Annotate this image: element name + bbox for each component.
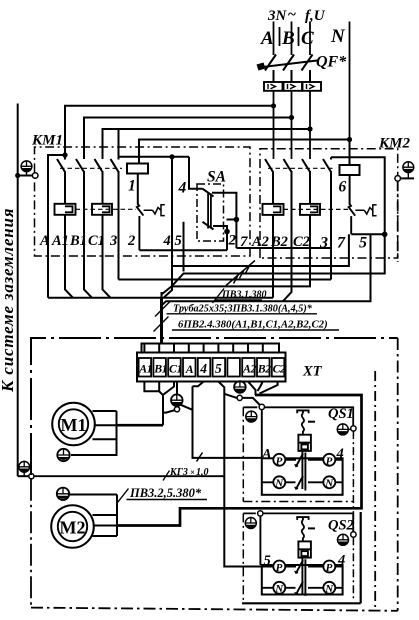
contactor KM2 enclosure box xyxy=(260,149,398,258)
wire below XT C1 xyxy=(164,382,175,395)
breaker QF overcurrent release box pole C xyxy=(303,82,322,91)
node grounding system line xyxy=(17,104,19,477)
wire A tap branch xyxy=(48,155,65,298)
wire ground KM2 enclosure xyxy=(401,177,415,179)
socket QS2 outer thick frame xyxy=(242,512,361,603)
wire phase A below breaker xyxy=(273,91,275,159)
terminal block XT cell labels xyxy=(138,361,286,376)
wire XT drop 4 xyxy=(203,344,205,353)
thermal heater KM2 phase A2 xyxy=(263,204,284,215)
wire KM1 thermal linkage dashed xyxy=(76,208,137,210)
svg-text:6: 6 xyxy=(339,179,347,196)
wire KM2 A2 below heater xyxy=(272,215,274,298)
wire net 5 upper link xyxy=(172,234,385,286)
wire 5 feeder down xyxy=(218,382,273,567)
node terminal circle PE right xyxy=(237,395,242,400)
wire diag to PE circle under XT xyxy=(224,394,237,398)
wire SA stub to junction xyxy=(227,219,237,221)
node junction phase A xyxy=(271,103,276,108)
wire PE2 stub xyxy=(239,381,241,383)
terminal block XT outer xyxy=(137,353,286,382)
svg-text:4: 4 xyxy=(163,233,171,249)
svg-text:М1: М1 xyxy=(61,415,87,435)
wire net 2 to KM1 thermal xyxy=(139,249,227,251)
wire phase C horizontal to KM1 xyxy=(103,129,311,159)
breaker QF linkage bar xyxy=(259,61,318,68)
fuse QS1 xyxy=(298,435,311,451)
wire below XT A1 xyxy=(144,382,159,392)
node junction phase C xyxy=(307,126,312,131)
socket QS2 blade arrows xyxy=(295,571,298,595)
breaker QF latch square xyxy=(257,63,266,71)
svg-text:SA: SA xyxy=(207,169,226,186)
svg-text:XT: XT xyxy=(302,364,323,380)
breaker QF overcurrent release box pole B xyxy=(284,82,303,91)
svg-text:C: C xyxy=(301,28,314,49)
node terminal circle KM1 enclosure xyxy=(32,173,38,179)
thermal NC release hook KM2 xyxy=(355,205,376,216)
wire phase B horizontal to KM1 xyxy=(84,118,292,160)
svg-text:ПВ3.2,5.380*: ПВ3.2,5.380* xyxy=(129,486,202,500)
svg-text:4: 4 xyxy=(199,361,207,376)
svg-text:2: 2 xyxy=(127,233,135,249)
machine enclosure box xyxy=(31,338,398,611)
svg-text:f,U: f,U xyxy=(305,8,326,24)
node terminal circle KM2 enclosure xyxy=(395,176,401,182)
wire phase A horizontal to KM1 xyxy=(65,106,274,155)
node junction column 4 xyxy=(169,154,174,159)
svg-text:A2: A2 xyxy=(251,234,269,250)
contact SA bottom xyxy=(203,222,214,230)
wire SA top feed from 4 xyxy=(189,157,203,189)
node KM2 bottom labels xyxy=(251,234,367,252)
wire M2 terminals xyxy=(70,495,117,537)
breaker QF pole A blade xyxy=(265,55,276,83)
ground PE symbol QS2 left xyxy=(245,518,256,529)
ground PE symbol at KM1 xyxy=(21,161,32,176)
svg-text:2: 2 xyxy=(228,233,237,249)
svg-text:6ПВ2.4.380(А1,В1,С1,А2,В2,С2): 6ПВ2.4.380(А1,В1,С1,А2,В2,С2) xyxy=(178,319,328,331)
wire net 7 link xyxy=(172,234,349,266)
wire column 4 xyxy=(164,157,173,298)
socket QS1 inner box xyxy=(262,458,343,495)
thermal NC release hook KM1 xyxy=(144,205,165,216)
wire XT drop C1 xyxy=(173,344,175,353)
ground PE symbol at KM2 xyxy=(403,162,414,179)
wire QS1 circle to contact row xyxy=(261,410,263,459)
wire phase C vertical top xyxy=(309,22,311,56)
wire net 3 link xyxy=(119,279,332,281)
label KG3x1.0 xyxy=(163,467,209,481)
svg-text:1: 1 xyxy=(128,178,136,195)
thermal heater KM1 phase A1 xyxy=(55,204,76,215)
wire ground cable KG to QS area xyxy=(34,475,224,477)
svg-text:3N: 3N xyxy=(267,8,288,24)
wire grounding right riser lower xyxy=(397,338,399,611)
wire KM1 aux feed row xyxy=(119,156,190,158)
svg-text:В2: В2 xyxy=(257,362,271,376)
socket QS2 N pin left xyxy=(273,582,285,595)
wire column 5 KM1 xyxy=(183,222,185,272)
svg-text:B2: B2 xyxy=(270,234,288,250)
wire M1 terminals xyxy=(71,411,117,455)
svg-text:B1: B1 xyxy=(69,233,87,249)
wire phase B vertical top xyxy=(291,22,293,56)
wire phase A vertical top xyxy=(273,22,275,56)
svg-text:5: 5 xyxy=(175,233,182,249)
ground PE symbol below XT right xyxy=(234,381,246,393)
svg-text:С1: С1 xyxy=(169,362,182,376)
svg-text:А2: А2 xyxy=(242,362,256,376)
fuse QS2 xyxy=(298,541,311,557)
svg-text:C1: C1 xyxy=(88,233,105,249)
ground PE symbol QS1 left xyxy=(246,411,257,422)
node junction SA 7 xyxy=(234,217,240,223)
label PV3.2,5.380 xyxy=(118,486,208,503)
socket QS1 P pin right xyxy=(323,454,335,468)
thermal heater KM2 phase C2 xyxy=(300,204,320,215)
svg-text:C2: C2 xyxy=(293,234,310,250)
svg-text:A: A xyxy=(39,233,50,249)
svg-text:N: N xyxy=(324,478,334,490)
socket QS2 P pin right xyxy=(323,561,335,575)
wire QS ground riser between QS1 QS2 xyxy=(352,431,354,532)
contact KM1 main pole 1 xyxy=(57,155,65,204)
svg-text:5: 5 xyxy=(359,235,367,252)
svg-text:В1: В1 xyxy=(153,362,167,376)
wire cable count diagonal xyxy=(226,261,255,286)
wire M1 cable riser xyxy=(162,395,164,426)
wire XT drop spare xyxy=(232,344,234,353)
svg-text:7: 7 xyxy=(337,235,346,252)
switch SA box xyxy=(197,184,224,241)
svg-text:Р: Р xyxy=(326,455,333,467)
socket QS2 dash mark xyxy=(308,527,315,529)
svg-text:1,0: 1,0 xyxy=(196,467,209,478)
wire phase B below breaker xyxy=(291,91,293,159)
svg-text:N: N xyxy=(324,583,334,595)
svg-text:~: ~ xyxy=(288,7,296,23)
socket QS2 P pin left xyxy=(273,561,285,575)
wire phase A separator ticks xyxy=(280,27,299,46)
socket QS2 flexible wire xyxy=(302,520,304,541)
node terminal circle QS2 right xyxy=(351,532,356,537)
node terminal circle M1 cable xyxy=(174,407,179,412)
svg-text:С2: С2 xyxy=(273,362,286,376)
node terminal circle QS1 top left xyxy=(259,404,264,409)
wire SA bottom right terminal xyxy=(213,226,227,250)
socket QS1 dash mark xyxy=(308,421,315,423)
socket QS2 N pin right xyxy=(323,582,335,595)
svg-text:КМ1: КМ1 xyxy=(31,133,63,149)
wire M2 cable xyxy=(117,395,362,526)
label cable PV3.1.380 xyxy=(213,289,267,304)
socket QS1 P pin left xyxy=(273,454,285,468)
ground PE symbol QS2 right xyxy=(338,534,349,545)
wire PE stub below XT xyxy=(176,382,178,395)
wire bundle C1 bend xyxy=(103,256,111,298)
wire net 7 to KM2 xyxy=(236,247,331,249)
contact KM2 thermal NC xyxy=(349,204,356,235)
node supply label 3N~ f,U xyxy=(267,7,326,24)
socket QS1 box xyxy=(243,407,353,426)
svg-text:К системе заземления: К системе заземления xyxy=(0,208,17,393)
svg-text:×: × xyxy=(190,467,195,477)
wire XT drop A xyxy=(188,344,190,353)
node terminal circle machine box xyxy=(29,474,34,479)
wire B2 jog to cable xyxy=(258,382,263,392)
socket QS1 N pin left xyxy=(273,476,285,489)
wire QS1 A feeder xyxy=(180,386,262,458)
socket QS1 flexible wire xyxy=(302,414,304,435)
label cable 6PV2.4.380 xyxy=(154,317,340,332)
svg-text:N: N xyxy=(330,26,346,47)
wire A cell jog xyxy=(193,382,204,387)
svg-text:Р: Р xyxy=(326,562,333,574)
wire C2 jog to cable xyxy=(260,382,278,394)
svg-text:А: А xyxy=(185,362,194,376)
breaker QF pole B blade xyxy=(283,55,294,83)
socket QS2 inner box xyxy=(262,565,343,595)
socket QS1 N row wires and blades xyxy=(262,476,343,489)
wire XT drop A1 xyxy=(143,344,145,353)
wire ground to KM1 enclosure xyxy=(18,175,32,177)
wire QS2 ground riser xyxy=(352,537,354,598)
node junction SA 2 xyxy=(224,229,230,235)
wire bus A row xyxy=(48,297,273,299)
svg-text:ПВ3.1.380: ПВ3.1.380 xyxy=(221,290,266,301)
wire SA top right terminal xyxy=(212,193,236,248)
ground PE symbol QS1 right xyxy=(337,424,350,435)
socket QS2 box xyxy=(243,513,353,531)
wire XT drop 5 xyxy=(217,344,219,353)
node terminal circle QS2 top left xyxy=(258,511,263,516)
coil KM2 xyxy=(340,165,360,175)
socket QS1 blade arrows xyxy=(295,464,298,489)
wire KM2 coil bottom xyxy=(349,175,351,205)
wire bundle B2 bend xyxy=(283,258,292,301)
svg-text:QF*: QF* xyxy=(316,54,347,71)
contact KM2 aux pole xyxy=(323,157,331,279)
ground PE symbol motor M2 xyxy=(57,488,69,500)
node junction ground KM1 xyxy=(15,173,20,178)
contact KM1 main pole 2 xyxy=(76,159,84,256)
label wire marking tick xyxy=(197,453,203,462)
node terminal circle QS1 right xyxy=(351,426,356,431)
node KM1 bottom labels xyxy=(39,233,182,249)
terminal block XT cells xyxy=(139,358,285,377)
svg-text:A1: A1 xyxy=(51,233,69,249)
wire phase C below breaker xyxy=(309,91,311,159)
socket QS1 N pin right xyxy=(323,476,335,489)
wire trunk cable to XT xyxy=(161,292,163,298)
ground PE symbol at machine box xyxy=(19,461,30,476)
svg-text:5: 5 xyxy=(264,553,271,569)
wire neutral to KM2 coil xyxy=(349,140,351,166)
contact KM2 main pole 3 xyxy=(302,159,310,204)
thermal heater KM1 phase C1 xyxy=(92,204,112,215)
svg-text:Р: Р xyxy=(276,562,283,574)
socket QS1 P row wires and blades xyxy=(285,454,323,467)
contact SA top xyxy=(203,189,214,197)
wire KM1 coil bottom xyxy=(137,174,139,205)
wire XT distribution bus xyxy=(142,344,280,353)
svg-text:A: A xyxy=(260,28,274,49)
svg-text:3: 3 xyxy=(319,235,328,252)
svg-text:N: N xyxy=(274,583,284,595)
switch SA linkage bar xyxy=(208,194,211,229)
wire QS2 circle to contact row xyxy=(259,516,261,565)
wire M1 cable xyxy=(117,424,164,427)
socket QS2 N row wires and blades xyxy=(262,581,343,594)
wire KM2 aux feed row xyxy=(331,157,385,234)
contact KM1 aux pole xyxy=(111,129,119,280)
svg-text:КМ2: КМ2 xyxy=(378,136,411,152)
wire net 5 lower link xyxy=(162,234,371,305)
svg-text:B: B xyxy=(281,28,295,49)
wire M1 cable link xyxy=(163,410,175,412)
ground PE symbol below XT left xyxy=(171,394,183,406)
wire grounding inner dash line xyxy=(374,371,376,610)
contactor KM1 enclosure box xyxy=(35,147,251,256)
wire KM1 C1 below heater xyxy=(102,215,104,256)
svg-text:5: 5 xyxy=(215,361,222,376)
socket QS2 pin symbol xyxy=(297,517,308,520)
svg-text:КГ3: КГ3 xyxy=(169,467,188,478)
svg-text:Труба25х35;3ПВ3.1.380(А,4,5)*: Труба25х35;3ПВ3.1.380(А,4,5)* xyxy=(173,304,313,315)
wire neutral horizontal to coils xyxy=(139,140,350,164)
node junction phase B xyxy=(289,115,294,120)
breaker QF pole C blade xyxy=(302,55,313,83)
socket QS1 pin symbol xyxy=(297,410,308,413)
svg-text:3: 3 xyxy=(109,233,117,249)
svg-text:QS1: QS1 xyxy=(328,406,354,422)
wire ground bus horizontal xyxy=(18,475,29,477)
node junction neutral xyxy=(347,137,352,142)
label cable Truba 25x35 xyxy=(155,302,317,317)
node junction KM1 phase A tap xyxy=(62,152,67,157)
svg-text:4: 4 xyxy=(178,180,187,197)
svg-text:Р: Р xyxy=(276,455,283,467)
wire QS1 4 wire xyxy=(335,459,342,461)
wire XT drop B2 xyxy=(262,344,264,353)
wire PE to QS1 corner circle xyxy=(242,398,260,405)
wire KM1 mechanical linkage dashed xyxy=(60,167,122,169)
wire KM2 thermal to junction xyxy=(351,233,385,235)
node junction KM2 net5 xyxy=(382,232,388,238)
svg-text:N: N xyxy=(274,478,284,490)
motor M1 xyxy=(52,403,95,446)
node SA bottom labels 2 7 xyxy=(228,233,249,251)
wire grounding right riser upper xyxy=(397,181,399,262)
svg-text:М2: М2 xyxy=(60,518,86,538)
wire bundle C2 bend xyxy=(162,215,311,295)
coil KM1 xyxy=(127,164,148,174)
breaker QF overcurrent release box pole A xyxy=(264,82,283,91)
wire QS2 4 wire xyxy=(335,566,342,568)
svg-text:QS2: QS2 xyxy=(328,518,354,534)
ground PE symbol motor M1 xyxy=(57,449,69,461)
contact KM2 main pole 2 xyxy=(284,159,292,258)
wire KM2 mechanical linkage dashed xyxy=(268,167,334,169)
wire KM2 thermal linkage dashed xyxy=(284,208,349,210)
wire KM1 A1 below heater xyxy=(64,215,66,256)
wire XT drop A2 xyxy=(247,344,249,353)
contact KM1 thermal NC xyxy=(137,204,144,251)
contact KM2 main pole 1 xyxy=(265,159,273,204)
socket QS2 contact bars xyxy=(302,558,305,596)
socket QS1 contact bars xyxy=(302,451,305,491)
wire bundle A1 bend xyxy=(65,256,73,298)
wire below XT B1 xyxy=(159,382,163,396)
svg-text:А1: А1 xyxy=(138,362,152,376)
socket QS2 P row wires and blades xyxy=(285,560,323,573)
wire bundle B1 bend xyxy=(84,256,92,298)
node phase labels A B C xyxy=(260,26,346,49)
wire neutral N vertical xyxy=(349,22,351,140)
motor M2 xyxy=(51,505,94,548)
wire XT drop B1 xyxy=(158,344,160,353)
contact KM1 main pole 3 xyxy=(95,159,103,204)
wire A2 jog to cable xyxy=(248,382,256,396)
